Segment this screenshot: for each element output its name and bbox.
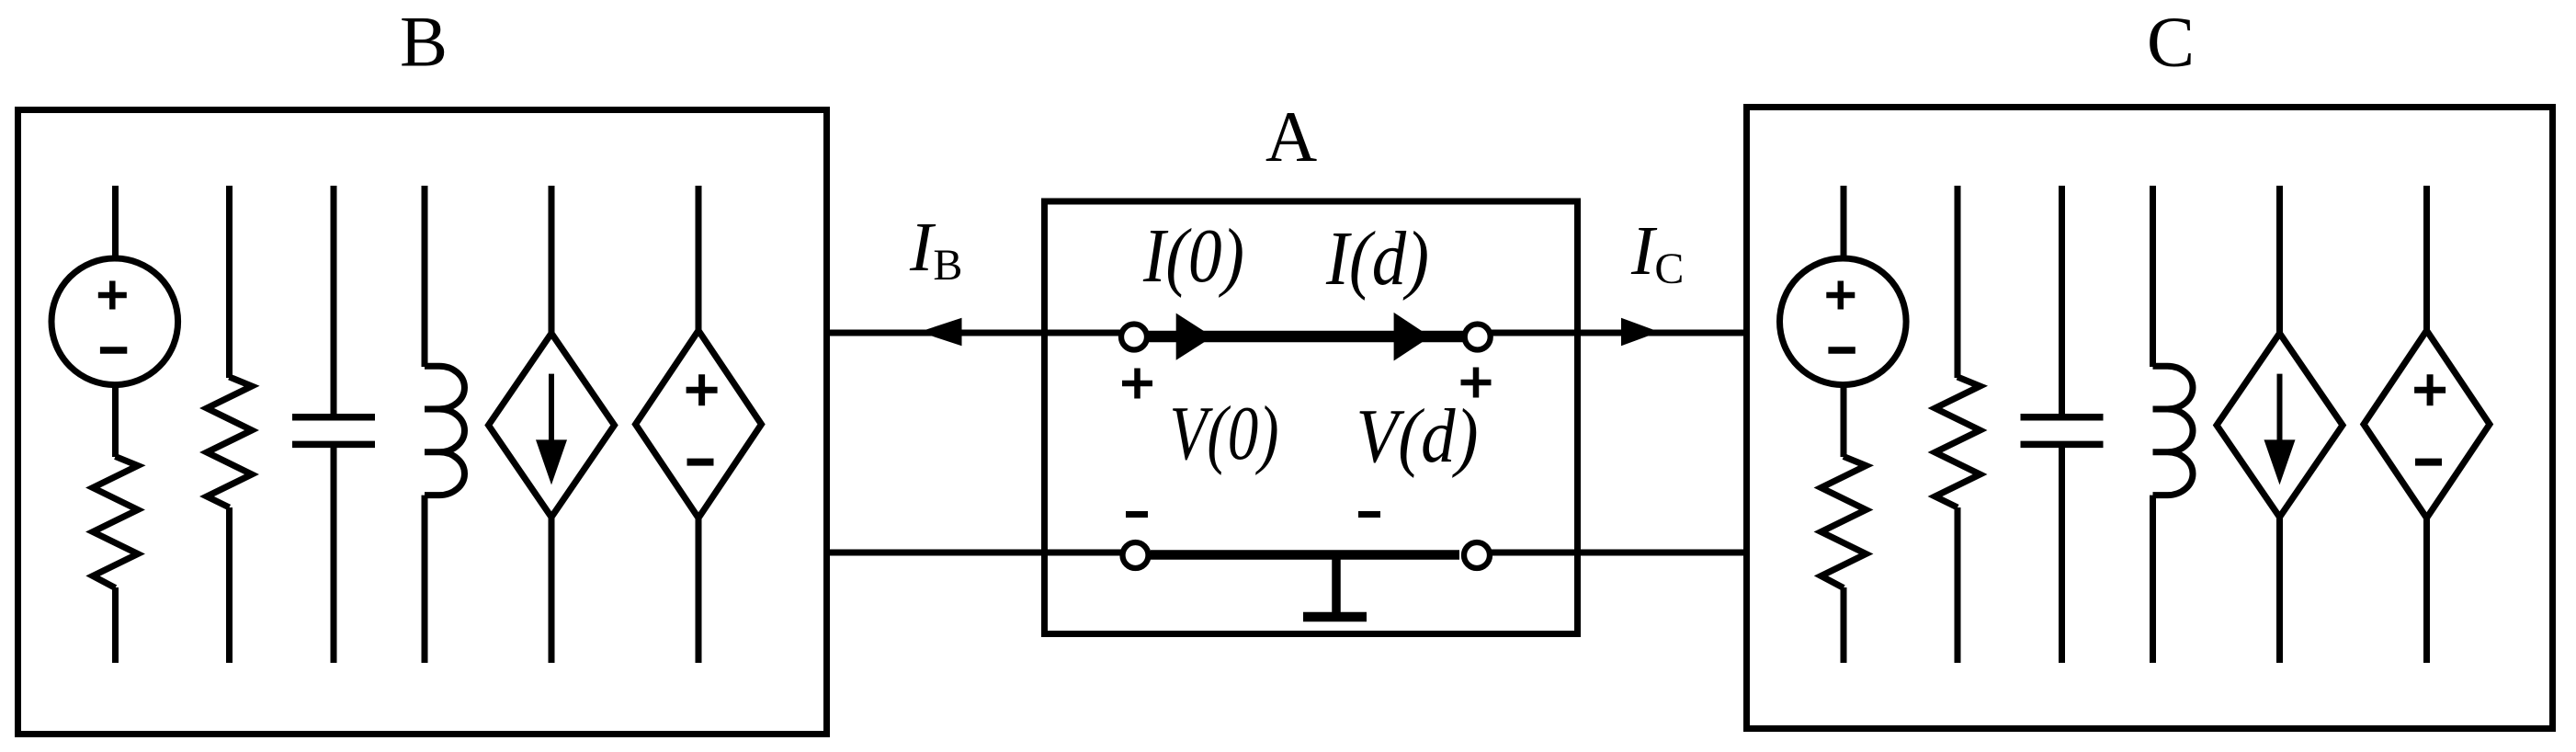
wire (2276, 516, 2283, 663)
wire (1841, 386, 1847, 458)
ground (1303, 555, 1367, 618)
wire (422, 186, 428, 367)
dependent current source I2 (2217, 334, 2343, 518)
terminal port 2 (top right) (1465, 325, 1491, 350)
wire (2423, 517, 2430, 664)
minus sign V(0) (1126, 511, 1148, 518)
wire (2059, 186, 2065, 417)
wire (331, 444, 337, 663)
arrow I(0) direction (1176, 313, 1213, 360)
plus sign V(0) (1122, 369, 1152, 399)
voltage source V1 (51, 258, 178, 385)
wire node A-to-C top (1478, 330, 1747, 336)
svg-text:V(d): V(d) (1356, 393, 1479, 479)
dependent voltage source E1 (636, 331, 762, 518)
wire (331, 186, 337, 417)
capacitor C1 (292, 417, 375, 445)
resistor R2 (207, 377, 252, 507)
wire (1955, 186, 1961, 378)
current arrow IB (pointing left) (919, 318, 961, 347)
wire (226, 186, 233, 378)
wire (2423, 186, 2430, 332)
resistor R4 (1935, 377, 1980, 507)
wire (1841, 186, 1847, 257)
wire (226, 507, 233, 663)
dependent current source I1 (489, 334, 615, 518)
transmission line top conductor (1149, 331, 1463, 343)
box A enclosure (transmission line two-port) (1045, 201, 1578, 634)
terminal port 1 (top left) (1121, 325, 1147, 350)
wire (1841, 587, 1847, 663)
capacitor C2 (2021, 417, 2104, 445)
dependent voltage source E2 (2364, 331, 2490, 518)
svg-text:IB: IB (909, 209, 962, 290)
wire (1955, 507, 1961, 663)
wire (2059, 444, 2065, 663)
plus sign V(d) (1461, 368, 1492, 398)
svg-text:A: A (1265, 97, 1317, 177)
terminal port 4 (bottom right) (1464, 542, 1490, 568)
svg-text:I(d): I(d) (1325, 216, 1429, 302)
wire (2150, 496, 2156, 663)
resistor R1 (93, 457, 138, 588)
svg-text:B: B (400, 2, 448, 82)
wire (422, 496, 428, 663)
transmission line bottom conductor (1151, 550, 1459, 560)
box B enclosure (18, 110, 827, 735)
wire node B-to-A top (826, 330, 1134, 336)
wire (112, 587, 119, 663)
wire (549, 186, 555, 335)
terminal port 3 (bottom left) (1123, 542, 1149, 568)
wire (2276, 186, 2283, 335)
arrow I(d) direction (1394, 313, 1431, 361)
inductor L1 (425, 366, 464, 495)
wire (112, 186, 119, 257)
svg-text:IC: IC (1630, 212, 1684, 293)
wire (2150, 186, 2156, 367)
wire (549, 516, 555, 663)
svg-text:C: C (2147, 2, 2195, 82)
resistor R3 (1821, 457, 1867, 588)
inductor L2 (2153, 366, 2194, 495)
wire node A-to-C bottom (1476, 550, 1747, 556)
wire node B-to-A bottom (826, 550, 1136, 556)
box C enclosure (1747, 108, 2553, 729)
current arrow IC (pointing right) (1621, 318, 1659, 347)
wire (696, 517, 702, 664)
svg-text:I(0): I(0) (1142, 213, 1244, 299)
wire (112, 386, 119, 458)
svg-text:V(0): V(0) (1170, 391, 1279, 476)
wire (696, 186, 702, 332)
voltage source V2 (1780, 258, 1907, 385)
minus sign V(d) (1358, 511, 1380, 518)
